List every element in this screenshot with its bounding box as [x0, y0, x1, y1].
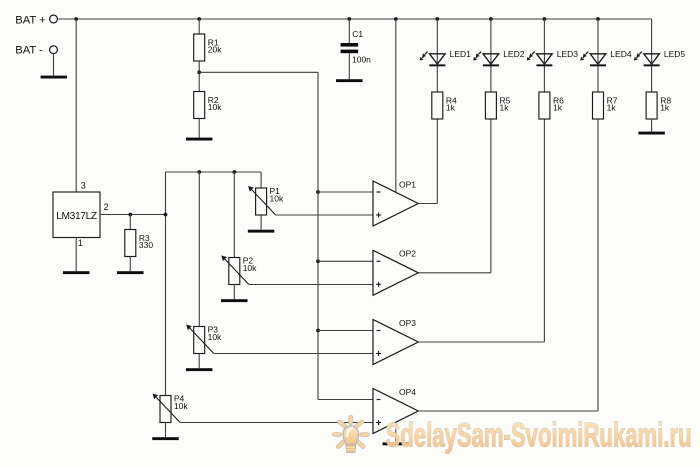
- watermark site text: [386, 417, 692, 455]
- ground BAT-: [41, 76, 68, 79]
- ground R2: [186, 138, 213, 141]
- node sense OP3: [316, 329, 320, 333]
- svg-text:LED4: LED4: [610, 49, 632, 59]
- wire R8 to ground: [651, 119, 653, 132]
- LED LED2: [473, 49, 525, 66]
- svg-text:LED2: LED2: [503, 49, 525, 59]
- svg-text:1k: 1k: [446, 103, 456, 113]
- wire LM317 pin1 to ground: [75, 238, 77, 272]
- svg-text:10k: 10k: [208, 102, 222, 112]
- node rail junction LED1: [435, 17, 439, 21]
- wire OP2 inverting input: [318, 260, 373, 262]
- watermark lightbulb logo: [334, 417, 367, 452]
- wire OP1 inverting input: [318, 191, 373, 193]
- op-amp OP1: [373, 179, 418, 226]
- node ref P2: [232, 170, 236, 174]
- LED LED4: [580, 49, 632, 66]
- svg-text:BAT +: BAT +: [15, 14, 45, 26]
- resistor R3 330: [125, 230, 154, 257]
- resistor R4 1k: [432, 92, 457, 119]
- svg-text:LM317LZ: LM317LZ: [56, 211, 97, 222]
- potentiometer P2 10k: [221, 256, 257, 285]
- potentiometer P1 10k: [248, 186, 284, 215]
- svg-text:OP2: OP2: [399, 249, 416, 259]
- svg-text:C1: C1: [352, 29, 363, 39]
- svg-text:LED3: LED3: [557, 49, 579, 59]
- wire OP3 output: [418, 119, 544, 343]
- wire OP2 output: [418, 119, 491, 273]
- wire LED1 anode: [436, 19, 438, 92]
- svg-text:LED1: LED1: [450, 49, 472, 59]
- svg-text:330: 330: [139, 240, 153, 250]
- svg-text:10k: 10k: [243, 263, 257, 273]
- ground C1: [336, 79, 363, 82]
- node R3 tap: [128, 213, 132, 217]
- ground P3: [186, 368, 213, 371]
- wire P3 to ground: [198, 354, 200, 369]
- wire C1 to ground: [348, 53, 350, 79]
- wire pot feed column P3: [198, 172, 200, 327]
- LED LED3: [527, 49, 579, 66]
- svg-text:BAT -: BAT -: [15, 45, 43, 57]
- wire P4 wiper to OP4 non-inverting input: [180, 422, 373, 424]
- wire OP1 output: [418, 119, 437, 204]
- op-amp OP3: [373, 318, 418, 365]
- wire P4 to ground: [165, 423, 167, 438]
- resistor R6 1k: [539, 92, 564, 119]
- resistor R7 1k: [593, 92, 618, 119]
- wire P2 to ground: [233, 285, 235, 300]
- LED LED5: [634, 49, 686, 66]
- wire P3 wiper to OP3 non-inverting input: [214, 353, 373, 355]
- wire LM317 pin2 output: [100, 214, 166, 216]
- node ref P3: [197, 170, 201, 174]
- svg-text:20k: 20k: [208, 45, 222, 55]
- wire P1 wiper to OP1 non-inverting input: [276, 214, 373, 216]
- svg-text:LED5: LED5: [664, 49, 686, 59]
- wire OP4 supply V- stub: [395, 423, 397, 443]
- capacitor C1 100n: [341, 29, 372, 64]
- wire LED2 anode: [490, 19, 492, 92]
- ground R8: [638, 132, 665, 135]
- wire R2 to ground: [198, 119, 200, 138]
- wire LED3 anode: [543, 19, 545, 92]
- svg-text:1: 1: [78, 238, 83, 248]
- svg-text:1k: 1k: [607, 103, 617, 113]
- svg-text:10k: 10k: [270, 193, 284, 203]
- wire C1 top: [348, 19, 350, 43]
- LED LED1: [420, 49, 472, 66]
- wire P2 wiper to OP2 non-inverting input: [249, 284, 373, 286]
- terminal BAT-: [15, 45, 57, 57]
- wire LED5 anode: [651, 19, 653, 92]
- svg-text:2: 2: [104, 202, 109, 212]
- ground R3: [117, 271, 144, 274]
- potentiometer P4 10k: [153, 394, 189, 423]
- ground LM317: [63, 271, 89, 274]
- potentiometer P3 10k: [186, 325, 222, 354]
- node rail junction LED2: [489, 17, 493, 21]
- wire R1-R2: [198, 61, 200, 92]
- ground P4: [152, 437, 179, 440]
- wire OP1 supply V+: [395, 19, 397, 192]
- svg-text:1k: 1k: [500, 103, 510, 113]
- wire BAT- to ground: [53, 54, 55, 76]
- node rail junction C1: [347, 17, 351, 21]
- wire pot feed column P4: [165, 172, 167, 396]
- node rail junction LED3: [543, 17, 547, 21]
- terminal BAT+: [15, 14, 57, 26]
- node rail junction V+: [394, 17, 398, 21]
- resistor R1 20k: [194, 34, 223, 61]
- wire P1 to ground: [260, 215, 262, 230]
- resistor R2 10k: [194, 92, 223, 119]
- regulator U1 LM317LZ: [53, 181, 109, 248]
- node sense OP1: [316, 190, 320, 194]
- node sense OP2: [316, 259, 320, 263]
- node pin2 junction: [164, 213, 168, 217]
- svg-text:3: 3: [81, 181, 86, 191]
- node divider junction: [197, 70, 201, 74]
- svg-text:OP3: OP3: [399, 318, 416, 328]
- wire R3 to ground: [129, 257, 131, 272]
- wire LED4 anode: [597, 19, 599, 92]
- wire top supply rail: [57, 18, 651, 20]
- node rail junction R1: [197, 17, 201, 21]
- wire OP4 output: [418, 119, 598, 412]
- wire R3 stub: [129, 215, 131, 230]
- resistor R5 1k: [485, 92, 510, 119]
- ground P1: [248, 230, 275, 233]
- op-amp OP2: [373, 249, 418, 296]
- ground OP4 V-: [383, 442, 410, 445]
- wire R1 top: [198, 19, 200, 34]
- svg-text:100n: 100n: [352, 55, 371, 65]
- wire divider sense to comparators: [199, 72, 373, 399]
- svg-text:1k: 1k: [553, 103, 563, 113]
- svg-text:SdelaySam-SvoimiRukami.ru: SdelaySam-SvoimiRukami.ru: [386, 417, 692, 455]
- svg-text:OP4: OP4: [399, 387, 416, 397]
- ground P2: [221, 299, 248, 302]
- wire reference rail: [166, 171, 262, 173]
- node rail junction A: [74, 17, 78, 21]
- svg-text:OP1: OP1: [399, 179, 416, 189]
- svg-text:1k: 1k: [660, 103, 670, 113]
- wire OP3 inverting input: [318, 330, 373, 332]
- op-amp OP4: [373, 387, 418, 434]
- node rail junction LED4: [596, 17, 600, 21]
- svg-text:10k: 10k: [208, 332, 222, 342]
- svg-text:10k: 10k: [174, 401, 188, 411]
- wire pot feed column P1: [260, 172, 262, 188]
- wire pot feed column P2: [233, 172, 235, 258]
- resistor R8 1k: [646, 92, 671, 119]
- wire LM317 pin3: [75, 19, 77, 192]
